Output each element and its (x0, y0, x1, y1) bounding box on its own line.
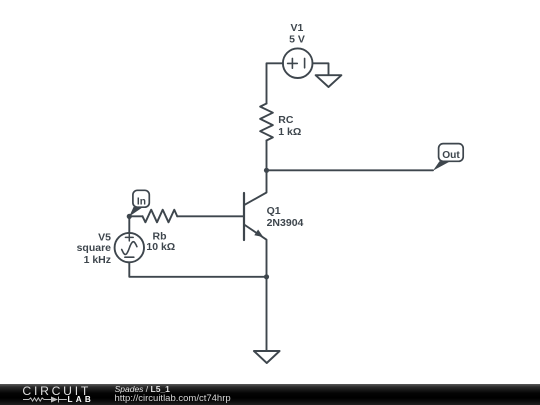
voltage source V1 (283, 48, 313, 78)
node emitter junction (264, 274, 269, 279)
svg-text:5 V: 5 V (289, 34, 305, 46)
transistor Q1 (244, 170, 267, 276)
label RC value (278, 114, 301, 138)
svg-text:1 kHz: 1 kHz (84, 254, 111, 266)
CircuitLab logo (22, 384, 91, 398)
svg-text:In: In (137, 196, 146, 207)
wire collector node to Out (267, 169, 434, 171)
node flag In (129, 190, 149, 216)
footer bar (0, 384, 540, 405)
label Q1 type (267, 205, 304, 229)
label V1 value (289, 22, 305, 46)
wire In node to V5 (128, 216, 130, 233)
node flag Out (433, 144, 463, 171)
footer title text (115, 384, 170, 394)
svg-text:1 kΩ: 1 kΩ (278, 126, 301, 138)
wire V5 bottom to emitter node (129, 262, 266, 277)
wire In node to Rb (129, 215, 142, 217)
wire emitter node to ground (266, 277, 268, 351)
wire RC bottom to collector node (266, 141, 268, 171)
ground (bottom) (254, 351, 280, 363)
label Rb value (146, 230, 175, 253)
label V5 value (77, 231, 112, 266)
wire base to Q1 (177, 215, 243, 217)
node collector junction (264, 168, 269, 173)
svg-text:Q1: Q1 (267, 205, 281, 217)
resistor RC (260, 104, 273, 141)
ground (V1) (316, 75, 342, 87)
svg-text:10 kΩ: 10 kΩ (146, 241, 175, 253)
node In junction (127, 214, 132, 219)
svg-text:square: square (77, 242, 112, 254)
svg-text:2N3904: 2N3904 (267, 217, 304, 229)
wire V1 left to RC top (267, 63, 283, 103)
resistor Rb (143, 210, 178, 223)
svg-text:V1: V1 (290, 22, 303, 34)
svg-text:RC: RC (278, 114, 294, 126)
voltage source V5 (115, 233, 144, 262)
footer url text (115, 393, 231, 404)
wire V1 right to ground (313, 63, 329, 75)
svg-text:Out: Out (442, 150, 460, 161)
